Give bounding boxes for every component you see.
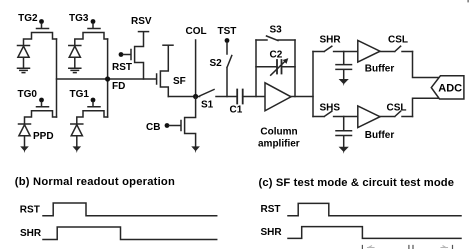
svg-text:Column: Column (260, 127, 297, 138)
capacitor C2 (variable) (256, 50, 295, 76)
svg-text:CB: CB (146, 122, 160, 133)
svg-text:CSL: CSL (387, 103, 407, 114)
buffer U3 (358, 106, 395, 141)
node column junction dot (193, 94, 198, 99)
svg-text:(c) SF test mode & circuit tes: (c) SF test mode & circuit test mode (259, 177, 455, 189)
wire SF source to column node (168, 96, 199, 98)
svg-text:amplifier: amplifier (258, 139, 300, 150)
ground (CB) (191, 146, 200, 153)
terminal TST (218, 26, 237, 43)
svg-text:SHR: SHR (320, 35, 342, 46)
op-amp U1 column amplifier (258, 83, 300, 150)
svg-text:RSV: RSV (131, 16, 152, 27)
waveform SHR (b) (43, 227, 217, 240)
power rail (SF drain) (163, 44, 173, 46)
switch SHS (313, 103, 358, 117)
photodiode D4 (under TG1) (71, 124, 83, 146)
svg-text:(b) Normal readout operation: (b) Normal readout operation (15, 176, 175, 188)
svg-text:Buffer: Buffer (365, 64, 395, 75)
svg-text:COL: COL (186, 26, 207, 37)
cropped mark (top right edge) (467, 0, 469, 2)
svg-text:SHR: SHR (20, 228, 42, 239)
transistor TG0 (18, 89, 57, 124)
svg-text:SHS: SHS (320, 103, 341, 114)
svg-text:C2: C2 (270, 50, 283, 61)
transistor SF (157, 46, 186, 97)
svg-text:RST: RST (112, 62, 132, 73)
wire TG3/TG1 shared vertical (107, 39, 109, 117)
capacitor (SHR hold) (336, 52, 352, 79)
waveform RST (c) (288, 203, 461, 215)
node FD bus wire (57, 78, 157, 80)
transistor TG1 (70, 89, 108, 124)
wire output split vertical (312, 52, 314, 117)
svg-text:S2: S2 (210, 58, 223, 69)
ground (D2) (69, 68, 81, 72)
power rail RSV (131, 16, 152, 32)
switch S3 (256, 25, 295, 41)
wire amp output (291, 96, 313, 98)
svg-text:TST: TST (218, 26, 237, 37)
ground (SHR cap) (339, 79, 349, 86)
svg-text:S1: S1 (201, 100, 214, 111)
buffer U2 (358, 41, 395, 75)
svg-text:TG2: TG2 (18, 13, 38, 24)
ground (D4) (73, 146, 82, 153)
ground (PPD) (20, 146, 29, 153)
svg-text:SF: SF (173, 76, 186, 87)
switch S2 (210, 43, 232, 97)
transistor CB (146, 97, 196, 147)
transistor TG2 (18, 13, 56, 46)
switch SHR (313, 35, 358, 52)
ground (D1) (18, 68, 30, 72)
transistor RST (112, 32, 144, 79)
node FD junction dot (105, 76, 110, 81)
wire COL column line (186, 26, 207, 97)
svg-text:TG1: TG1 (70, 89, 90, 100)
capacitor (SHS hold) (336, 117, 352, 147)
svg-text:SHR: SHR (261, 227, 283, 238)
wire CSL top to ADC (413, 52, 441, 78)
waveform SHR (c) (288, 227, 461, 239)
dimension ticks (cropped) (362, 246, 452, 249)
svg-text:FD: FD (112, 81, 125, 92)
photodiode PPD (under TG0) (19, 124, 54, 146)
wire feedback right vertical (294, 40, 296, 97)
svg-text:C1: C1 (230, 105, 243, 116)
capacitor C1 (230, 90, 266, 116)
waveform RST (b) (43, 203, 217, 216)
svg-text:TG0: TG0 (18, 89, 38, 100)
ground (SHS cap) (339, 147, 349, 154)
svg-text:PPD: PPD (33, 131, 54, 142)
switch CSL (bottom) (380, 103, 413, 117)
wire CSL bottom to ADC (413, 98, 439, 116)
switch CSL (top) (380, 35, 413, 52)
svg-text:Buffer: Buffer (365, 130, 395, 141)
svg-text:RST: RST (20, 205, 40, 216)
ADC block (431, 76, 464, 99)
svg-text:S3: S3 (270, 25, 283, 36)
wire TG2/TG0 shared vertical (56, 39, 58, 117)
svg-text:CSL: CSL (388, 35, 408, 46)
svg-text:ADC: ADC (438, 83, 462, 95)
transistor TG3 (69, 13, 108, 46)
diode D2 (under TG3) (69, 46, 81, 68)
svg-text:TG3: TG3 (69, 13, 89, 24)
diode D1 (under TG2) (18, 46, 30, 68)
wire feedback left vertical (255, 40, 257, 97)
switch S1 (200, 90, 237, 111)
svg-text:RST: RST (261, 204, 281, 215)
